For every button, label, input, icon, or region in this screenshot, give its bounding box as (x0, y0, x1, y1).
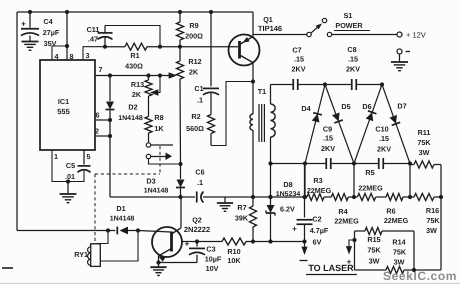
label C2 (310, 215, 329, 247)
svg-text:.1: .1 (197, 178, 203, 187)
svg-text:+: + (347, 258, 352, 267)
wire T1 secondary bottom (268, 137, 272, 199)
label RY1 (74, 250, 88, 259)
label R3 (307, 176, 332, 195)
svg-text:C5: C5 (66, 161, 75, 170)
resistor R15 75K (355, 228, 415, 235)
pin 5 label (87, 152, 91, 161)
svg-text:D4: D4 (301, 104, 310, 113)
scan artifact bottom edge (0, 282, 460, 284)
wire multiplier low rail seg1 (271, 161, 327, 165)
svg-text:C10: C10 (375, 125, 388, 134)
watermark (383, 269, 457, 283)
resistor R6 22MEG (386, 194, 403, 201)
svg-text:560Ω: 560Ω (186, 124, 204, 133)
relay contact lower with arm (146, 153, 172, 161)
svg-text:3W: 3W (394, 258, 405, 267)
diode D4 (305, 85, 325, 164)
transformer T1 primary (250, 114, 253, 130)
wire ballast right edge (412, 231, 416, 272)
op-amp timer IC1 555 box (40, 60, 95, 150)
capacitor C5 (66, 150, 91, 184)
svg-text:Q2: Q2 (192, 216, 202, 225)
wire pin 3 jog (83, 47, 105, 60)
svg-text:T1: T1 (258, 87, 266, 96)
svg-text:1: 1 (54, 152, 58, 161)
label C4 (43, 17, 60, 48)
svg-text:3W: 3W (419, 148, 430, 157)
svg-text:10K: 10K (227, 256, 241, 265)
diode D6 (354, 85, 382, 164)
wire emitter to C3 (159, 262, 198, 264)
svg-text:22MEG: 22MEG (334, 217, 359, 226)
svg-text:D7: D7 (397, 102, 406, 111)
svg-text:22MEG: 22MEG (307, 186, 332, 195)
svg-text:75K: 75K (393, 248, 407, 257)
svg-text:6.2V: 6.2V (280, 205, 295, 214)
svg-text:35V: 35V (44, 39, 57, 48)
label R5 (358, 168, 383, 193)
svg-text:R10: R10 (227, 247, 240, 256)
resistor R7 (250, 195, 257, 244)
svg-text:R13: R13 (131, 80, 144, 89)
wire multiplier low rail seg2 (331, 161, 379, 165)
svg-text:+: + (185, 240, 190, 249)
svg-text:27µF: 27µF (43, 28, 60, 37)
wire pins 2-6 tie and down to rail (95, 120, 112, 197)
label R16 (426, 206, 440, 235)
svg-text:R11: R11 (418, 128, 431, 137)
svg-text:200Ω: 200Ω (185, 32, 203, 41)
svg-text:75K: 75K (426, 216, 440, 225)
svg-text:2K: 2K (132, 90, 142, 99)
svg-text:.15: .15 (323, 134, 333, 143)
svg-text:R7: R7 (237, 203, 246, 212)
resistor R9 (177, 10, 184, 49)
svg-text:.47: .47 (88, 35, 98, 44)
svg-text:10V: 10V (206, 264, 219, 273)
wire switch to +12V terminal (332, 34, 397, 36)
label Q1 (258, 15, 282, 33)
wire stub multiplier mid to bleeder (352, 164, 356, 200)
svg-text:C1: C1 (194, 84, 203, 93)
svg-text:D1: D1 (116, 204, 125, 213)
ground below Q2 (150, 267, 166, 275)
label R7 (235, 203, 249, 223)
resistor R8 (145, 96, 152, 143)
scan artifact bottom-left (2, 267, 13, 269)
svg-text:2KV: 2KV (377, 145, 391, 154)
svg-text:22MEG: 22MEG (384, 216, 409, 225)
svg-text:22MEG: 22MEG (358, 184, 383, 193)
label T1 (258, 87, 266, 96)
label D5 (341, 102, 350, 111)
svg-text:39K: 39K (235, 214, 249, 223)
svg-text:Q1: Q1 (263, 15, 273, 24)
ground below pin1/C5 (60, 182, 77, 203)
label R14 (392, 238, 406, 267)
resistor R4 22MEG (331, 194, 348, 201)
transistor Q2 2N2222 (152, 227, 182, 262)
wire Q2 base (138, 231, 171, 233)
diode D2 1N4148 (106, 76, 115, 121)
label R12 (188, 57, 201, 77)
transformer T1 core (259, 104, 264, 142)
pin 2 label (95, 127, 99, 136)
label R10 (227, 247, 241, 265)
svg-text:R12: R12 (188, 57, 201, 66)
laser negative output arrow (300, 242, 308, 261)
pin 6 label (96, 111, 100, 120)
svg-text:R2: R2 (191, 112, 200, 121)
svg-text:1N4148: 1N4148 (110, 216, 135, 223)
wire top +12V rail (17, 11, 253, 13)
wire lower return to relay/D1 node (17, 230, 108, 232)
label R11 (417, 128, 431, 157)
ground below C4 (22, 42, 39, 51)
wire rail R4-R5 (348, 196, 357, 198)
svg-text:4: 4 (55, 52, 59, 61)
wire rail R6-R16 (403, 196, 414, 198)
svg-text:2N2222: 2N2222 (184, 225, 210, 234)
svg-text:8: 8 (70, 52, 74, 61)
resistor R3 22MEG (307, 194, 324, 201)
svg-text:R4: R4 (338, 207, 347, 216)
pin 3 label (86, 51, 90, 60)
capacitor C7 (293, 79, 298, 90)
wire pin 8 riser (65, 10, 69, 60)
svg-text:555: 555 (57, 107, 70, 116)
wire Q2 collector riser (180, 197, 182, 228)
zener diode D8 1N5234 (266, 195, 275, 244)
wire pin 7 (95, 73, 152, 77)
svg-text:SeekIC.com: SeekIC.com (383, 269, 457, 283)
wire HV top rail seg3 (356, 82, 384, 86)
wire R16 right (434, 195, 443, 199)
switch S1 (307, 18, 332, 36)
wire contact to D3 node (149, 159, 183, 166)
label IC1 (58, 97, 69, 106)
wire snubber return to collector (211, 79, 255, 145)
label C7 (292, 46, 306, 74)
label C6 (195, 168, 204, 188)
diode D5 (325, 85, 354, 164)
svg-text:.15: .15 (348, 55, 358, 64)
svg-text:3: 3 (86, 51, 90, 60)
diode D7 (382, 85, 410, 164)
relay contact upper (146, 143, 173, 147)
wire multiplier low rail seg3 (383, 161, 412, 165)
svg-text:2KV: 2KV (321, 144, 335, 153)
wire common rail (110, 196, 307, 198)
svg-text:3W: 3W (369, 257, 380, 266)
label D2 (118, 103, 143, 123)
svg-text:D5: D5 (341, 102, 350, 111)
svg-text:2KV: 2KV (346, 65, 360, 74)
wire stub multiplier right to bleeder (408, 164, 412, 200)
capacitor C4 (21, 10, 39, 41)
label TO LASER (306, 263, 357, 275)
wire pin 6 (95, 118, 112, 122)
potentiometer R12 (152, 47, 184, 79)
svg-text:+: + (292, 225, 297, 234)
svg-text:C9: C9 (323, 125, 332, 134)
pin 1 label (54, 152, 58, 161)
svg-text:7: 7 (99, 65, 103, 74)
pin 4 label (55, 52, 59, 61)
svg-text:1N4148: 1N4148 (118, 115, 143, 122)
svg-text:75K: 75K (367, 246, 381, 255)
svg-text:R5: R5 (365, 168, 374, 177)
terminal minus (397, 49, 410, 54)
svg-text:2KV: 2KV (292, 65, 306, 74)
svg-text:.01: .01 (65, 172, 75, 181)
svg-text:C6: C6 (195, 168, 204, 177)
pin 7 label (99, 65, 103, 74)
label R8 (154, 113, 164, 133)
svg-text:3W: 3W (426, 226, 437, 235)
capacitor C1 (203, 88, 219, 94)
dashed relay linkage to coil (94, 174, 96, 243)
capacitor C2 (292, 164, 312, 244)
wire rail R3-R4 (324, 196, 331, 198)
svg-text:R3: R3 (313, 176, 322, 185)
label 555 (57, 107, 70, 116)
wire T1 secondary top (270, 85, 272, 105)
label R4 (334, 207, 359, 226)
wire stub multiplier left to bleeder (303, 164, 307, 200)
capacitor C6 (197, 192, 204, 203)
capacitor C10 (379, 158, 384, 169)
label D1 (110, 204, 135, 223)
label R6 (384, 207, 409, 226)
resistor R5 22MEG (357, 194, 375, 201)
resistor R11 75K (410, 161, 441, 168)
svg-text:D8: D8 (283, 180, 292, 189)
svg-text:.15: .15 (379, 134, 389, 143)
resistor R2 (208, 93, 215, 146)
wire Q2 emitter to ground (156, 255, 160, 266)
svg-text:C7: C7 (292, 46, 301, 55)
svg-text:1K: 1K (154, 124, 164, 133)
terminal +12V (397, 31, 426, 40)
wire T1 primary bottom to rail (252, 130, 254, 197)
label R2 (186, 112, 204, 133)
label R1 (125, 51, 143, 71)
wire pin 4 jog (52, 44, 69, 60)
svg-text:C8: C8 (347, 45, 356, 54)
transistor Q1 TIP146 (229, 35, 260, 66)
resistor R14 75K (355, 267, 442, 274)
svg-text:D2: D2 (128, 103, 137, 112)
svg-text:1N4148: 1N4148 (144, 188, 169, 195)
svg-text:2: 2 (95, 127, 99, 136)
svg-text:6: 6 (96, 111, 100, 120)
label R13 (131, 80, 144, 99)
svg-text:10µF: 10µF (205, 255, 222, 264)
svg-text:5: 5 (87, 152, 91, 161)
svg-text:+ 12V: + 12V (406, 31, 426, 40)
transformer T1 secondary (271, 104, 276, 137)
resistor R16 75K (414, 194, 434, 201)
svg-text:R1: R1 (130, 51, 139, 60)
svg-text:R6: R6 (386, 207, 395, 216)
svg-text:2K: 2K (189, 68, 199, 77)
svg-text:1N5234: 1N5234 (276, 191, 301, 198)
wire R12 bottom to contact node (179, 79, 182, 164)
wire snubber from +12V rail (209, 10, 213, 87)
label C8 (346, 45, 360, 74)
pin 8 label (70, 52, 74, 61)
diode D1 1N4148 (106, 227, 140, 235)
wire rail R5-R6 (376, 196, 386, 198)
resistor R1 (105, 43, 180, 50)
svg-text:RY1: RY1 (74, 250, 88, 259)
label D3 (144, 177, 169, 195)
capacitor C9 (326, 158, 331, 169)
svg-text:430Ω: 430Ω (125, 62, 143, 71)
laser positive output arrow (346, 240, 355, 267)
wire right edge down (440, 165, 442, 271)
label Q2 (184, 216, 210, 235)
svg-text:D3: D3 (146, 177, 155, 186)
label R15 (367, 235, 381, 266)
label D4 (301, 104, 310, 113)
svg-text:R14: R14 (392, 238, 405, 247)
svg-text:.1: .1 (197, 96, 203, 105)
resistor R13 trimmer (145, 76, 160, 97)
wire emitter node to switch (253, 34, 307, 36)
svg-text:R9: R9 (189, 21, 198, 30)
svg-text:R15: R15 (367, 235, 380, 244)
wire pin 1 (52, 150, 68, 182)
dashed relay linkage vertical at contacts (159, 146, 161, 174)
dashed relay linkage horizontal (95, 173, 160, 175)
svg-text:R8: R8 (154, 113, 163, 122)
svg-text:C3: C3 (206, 245, 215, 254)
wire HV top rail seg1 (271, 84, 294, 86)
wire +12V to Q1 emitter (252, 12, 254, 37)
label D7 (397, 102, 406, 111)
label C9 (321, 125, 335, 154)
svg-text:IC1: IC1 (58, 97, 69, 106)
wire Q1 base (180, 46, 238, 48)
svg-text:POWER: POWER (335, 21, 363, 30)
wire Q1 collector to T1 (252, 62, 254, 114)
label C1 (194, 84, 203, 105)
resistor R10 (222, 238, 246, 245)
svg-text:4.7µF: 4.7µF (310, 226, 329, 235)
label C11 (87, 25, 100, 44)
svg-text:C4: C4 (43, 17, 52, 26)
svg-text:R16: R16 (426, 206, 439, 215)
diode D3 1N4148 (176, 164, 185, 199)
ground at minus terminal (391, 54, 408, 71)
label R9 (185, 21, 203, 41)
label C5 (65, 161, 75, 181)
svg-text:D6: D6 (362, 102, 371, 111)
svg-text:TIP146: TIP146 (258, 24, 282, 33)
capacitor C11 (98, 26, 163, 49)
svg-text:S1: S1 (344, 11, 353, 20)
svg-text:.15: .15 (294, 55, 304, 64)
label C10 (375, 125, 391, 154)
wire ballast left edge (352, 231, 356, 270)
svg-text:6V: 6V (313, 238, 322, 247)
wire HV top rail seg2 (298, 82, 352, 86)
svg-text:C11: C11 (87, 25, 100, 34)
wire left return column (16, 12, 18, 231)
label C3 (205, 245, 222, 274)
svg-text:75K: 75K (417, 138, 431, 147)
ground on rail (217, 197, 233, 211)
label D8 (276, 180, 301, 214)
wire bottom rail (181, 241, 305, 243)
label S1 (334, 11, 370, 31)
svg-text:C2: C2 (312, 215, 321, 224)
svg-text:+: + (21, 20, 26, 29)
label D6 (362, 102, 371, 111)
capacitor C8 (352, 79, 357, 90)
capacitor C3 (185, 239, 205, 262)
relay RY1 coil (88, 231, 138, 267)
